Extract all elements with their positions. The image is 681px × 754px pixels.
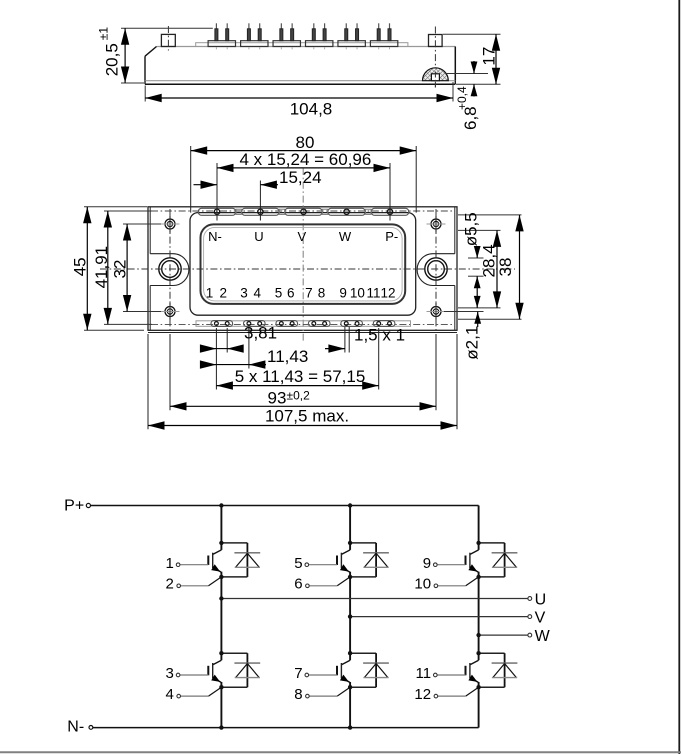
top view right flange step line	[454, 207, 456, 330]
side view left mounting boss	[161, 34, 175, 46]
N- rail	[93, 727, 479, 729]
side view pin socket 4	[306, 41, 333, 47]
aux emitter lead pin 12	[414, 686, 478, 703]
terminal row centerline	[151, 210, 454, 212]
svg-text:V: V	[297, 229, 306, 244]
svg-text:±0,2: ±0,2	[287, 388, 311, 402]
side view pin 1	[215, 23, 218, 49]
node U junction dot	[219, 596, 223, 600]
inter-slot tab	[279, 209, 284, 214]
svg-text:3: 3	[240, 285, 248, 300]
pin slot pair 6	[373, 321, 395, 327]
lid outer outline	[190, 213, 416, 316]
small mounting hole at (170,224)	[161, 216, 180, 233]
svg-text:U: U	[535, 592, 547, 609]
node W junction dot	[476, 633, 480, 637]
bushing square hole	[431, 74, 439, 81]
svg-text:3: 3	[166, 665, 174, 682]
side view pin 10	[356, 23, 359, 49]
emitter node of T1	[219, 575, 223, 579]
top view pin 8 circle	[323, 322, 327, 326]
terminal labels N- U V W P-	[208, 229, 398, 244]
svg-text:9: 9	[423, 555, 431, 572]
IGBT T3	[466, 543, 479, 577]
freewheel diode of T4	[221, 653, 260, 687]
side view pin socket 2	[241, 41, 268, 47]
vertical module centerline	[302, 168, 304, 342]
pin slot pair 4	[308, 321, 330, 327]
lid inner shadow line	[204, 227, 403, 301]
svg-text:U: U	[254, 229, 263, 244]
inter-slot tab	[366, 209, 371, 214]
IGBT T5	[337, 653, 350, 687]
pin slot pair 2	[244, 321, 266, 327]
emitter node of T2	[348, 575, 352, 579]
inter-slot tab	[322, 209, 327, 214]
top view pin 6 circle	[290, 322, 294, 326]
aux emitter lead pin 6	[294, 576, 350, 593]
svg-text:6: 6	[294, 576, 302, 593]
gate lead pin 1	[166, 555, 209, 572]
dimension 32 hole span	[111, 224, 132, 312]
side view pin 8	[323, 23, 326, 49]
right extension lines	[444, 215, 522, 319]
collector node of T1	[219, 541, 223, 545]
svg-text:ø5,5: ø5,5	[462, 212, 481, 246]
IGBT T4	[208, 653, 221, 687]
side view pin socket 1	[208, 41, 235, 47]
terminal slot 5	[371, 208, 408, 215]
top view bottom double edge	[148, 332, 457, 334]
svg-text:11: 11	[366, 285, 380, 300]
P+ junction dot leg1	[219, 503, 223, 507]
terminal slot 1	[198, 208, 235, 215]
inter-slot tab	[236, 209, 241, 214]
svg-text:6: 6	[287, 285, 295, 300]
side view pin 5	[280, 23, 283, 49]
small mounting hole at (170,311.5)	[161, 303, 180, 320]
right big mounting hole	[425, 258, 447, 280]
bushing top extension line	[445, 73, 488, 75]
freewheel diode of T1	[221, 543, 260, 577]
output wire V	[350, 610, 545, 627]
svg-text:ø2,1: ø2,1	[463, 326, 482, 360]
dimension 80 lid width	[191, 133, 417, 155]
svg-text:38: 38	[496, 258, 515, 277]
dimension ø5,5 mounting hole leader	[462, 212, 481, 308]
top view pin 4 circle	[258, 322, 262, 326]
svg-text:P-: P-	[385, 229, 398, 244]
aux emitter lead pin 8	[294, 686, 350, 703]
P+ junction dot leg2	[348, 503, 352, 507]
svg-text:W: W	[535, 628, 551, 645]
svg-text:11: 11	[416, 665, 432, 682]
dimension 107,5 max overall width	[148, 406, 457, 429]
collector node of T6	[476, 651, 480, 655]
pin row strip	[196, 321, 411, 327]
svg-text:10: 10	[350, 285, 365, 300]
side view pin 9	[345, 23, 348, 49]
dimension 6,8 +0,4 bushing height	[455, 61, 480, 130]
small mounting hole at (436,311.5)	[427, 303, 446, 320]
svg-text:8: 8	[294, 686, 302, 703]
left mounting hole boss cutout	[150, 254, 189, 286]
IGBT T1	[208, 543, 221, 577]
top view left flange step line	[149, 207, 151, 330]
side view pin 6	[291, 23, 294, 49]
leg 2 vertical wire	[349, 506, 351, 728]
dimension 11,43 group pitch	[200, 347, 308, 369]
terminal screw 3	[301, 209, 306, 214]
freewheel diode of T2	[350, 543, 389, 577]
side view left boss centerline	[167, 26, 169, 51]
svg-text:9: 9	[339, 285, 347, 300]
side view pin socket 3	[273, 41, 300, 47]
side view pin 2	[226, 23, 229, 49]
terminal screw 5	[387, 209, 392, 214]
svg-text:15,24: 15,24	[279, 168, 322, 187]
svg-text:8: 8	[318, 285, 326, 300]
top view pin 9 circle	[344, 322, 348, 326]
node V junction dot	[348, 614, 352, 618]
IGBT T2	[337, 543, 350, 577]
svg-text:N-: N-	[67, 719, 84, 736]
N- junction dot leg2	[348, 725, 352, 729]
svg-text:N-: N-	[208, 229, 222, 244]
top view pin 5 circle	[279, 322, 283, 326]
terminal screw 4	[344, 209, 349, 214]
bushing centerline over square	[434, 72, 436, 88]
svg-text:12: 12	[414, 686, 431, 703]
dimension 41,91 row span	[92, 211, 112, 324]
side view pin 4	[258, 23, 261, 49]
output wire W	[479, 628, 551, 645]
emitter node of T4	[219, 685, 223, 689]
pin number labels 1-12	[206, 285, 396, 300]
svg-text:12: 12	[380, 285, 395, 300]
aux emitter lead pin 2	[166, 576, 222, 593]
svg-text:7: 7	[294, 665, 302, 682]
terminal slot 2	[242, 208, 279, 215]
svg-text:5: 5	[294, 555, 302, 572]
svg-text:3,81: 3,81	[244, 324, 277, 343]
svg-text:2: 2	[220, 285, 228, 300]
side view pin socket 6	[370, 41, 397, 47]
svg-text:+0,4: +0,4	[455, 86, 469, 110]
svg-text:4: 4	[166, 686, 174, 703]
IGBT T6	[466, 653, 479, 687]
top view pin 3 circle	[247, 322, 251, 326]
collector node of T3	[476, 541, 480, 545]
gate lead pin 11	[416, 665, 466, 682]
side view baseplate	[145, 81, 455, 85]
freewheel diode of T6	[479, 653, 518, 687]
side view pin socket strip	[196, 43, 408, 47]
side view pin socket 5	[338, 41, 365, 47]
svg-text:4 x 15,24 = 60,96: 4 x 15,24 = 60,96	[239, 150, 371, 169]
dimension 104,8 side width	[145, 82, 453, 119]
svg-text:7: 7	[305, 285, 313, 300]
side view right boss / bushing centerline	[434, 27, 436, 88]
terminal screw 2	[258, 209, 263, 214]
dimension 1,5 x 1 pin size	[325, 326, 405, 353]
dimension 45 module height	[71, 207, 92, 330]
side view pin 11	[377, 23, 380, 49]
svg-text:1: 1	[166, 555, 174, 572]
gate lead pin 5	[294, 555, 337, 572]
svg-text:5: 5	[275, 285, 283, 300]
small mounting hole at (436,224)	[427, 216, 446, 233]
extension lines below top view	[148, 327, 457, 429]
dimension ø2,1 pin hole leader	[463, 312, 482, 360]
svg-text:10: 10	[414, 576, 431, 593]
svg-text:11,43: 11,43	[267, 347, 308, 366]
P+ terminal circle	[86, 503, 90, 507]
freewheel diode of T3	[479, 543, 518, 577]
side view pin 3	[247, 23, 250, 49]
svg-text:P+: P+	[64, 497, 84, 514]
top view pin 2 circle	[225, 322, 229, 326]
emitter node of T6	[476, 685, 480, 689]
svg-text:4: 4	[253, 285, 261, 300]
svg-text:17: 17	[480, 47, 499, 66]
svg-text:32: 32	[111, 260, 130, 279]
pin slot pair 3	[276, 321, 298, 327]
output wire U	[221, 592, 546, 609]
terminal screw 1	[214, 209, 219, 214]
terminal slot 3	[285, 208, 322, 215]
side view pin 7	[312, 23, 315, 49]
top view pin 7 circle	[312, 322, 316, 326]
svg-text:104,8: 104,8	[290, 100, 333, 119]
emitter node of T3	[476, 575, 480, 579]
dimension 15,24	[194, 168, 322, 189]
top view pin 11 circle	[377, 322, 381, 326]
top view pin 10 circle	[355, 322, 359, 326]
svg-text:41,91: 41,91	[92, 246, 111, 289]
dimension 17 right side height	[443, 34, 501, 84]
N- junction dot leg1	[219, 725, 223, 729]
top view pin 12 circle	[388, 322, 392, 326]
vertical centerline left holes	[169, 209, 171, 331]
gate lead pin 3	[166, 665, 209, 682]
svg-text:107,5 max.: 107,5 max.	[265, 406, 349, 425]
dimension 20,5 +/-1 side height	[97, 27, 213, 83]
svg-text:5 x 11,43 = 57,15: 5 x 11,43 = 57,15	[235, 367, 366, 386]
P+ rail	[91, 505, 479, 507]
dimension 93 +/-0,2 hole span	[170, 388, 436, 410]
collector node of T5	[348, 651, 352, 655]
side view module body outline	[145, 47, 455, 81]
dimension 3,81 pin pitch	[200, 324, 277, 353]
left big mounting hole	[159, 258, 181, 280]
N- terminal circle	[89, 726, 93, 730]
pin row centerline	[151, 323, 454, 325]
horizontal main centerline	[100, 268, 515, 270]
svg-text:45: 45	[71, 257, 90, 276]
svg-text:1: 1	[206, 285, 214, 300]
svg-text:V: V	[535, 610, 546, 627]
top view pin 1 circle	[215, 322, 219, 326]
terminal slot 4	[328, 208, 365, 215]
emitter node of T5	[348, 685, 352, 689]
aux emitter lead pin 10	[414, 576, 478, 593]
dimension 5 x 11,43 = 57,15	[216, 367, 378, 390]
svg-text:2: 2	[166, 576, 174, 593]
svg-text:1,5 x 1: 1,5 x 1	[354, 326, 405, 345]
right mounting hole boss cutout	[417, 254, 455, 286]
top view module outer outline	[148, 207, 457, 330]
pin slot pair 1	[211, 321, 233, 327]
dimension 4 x 15,24 = 60,96	[217, 150, 390, 172]
lid inner outline	[201, 224, 406, 304]
leg 3 vertical wire	[478, 506, 480, 728]
leg 1 vertical wire	[220, 506, 222, 728]
svg-text:W: W	[339, 229, 352, 244]
side view right mounting boss	[429, 35, 443, 47]
dimension 28,4	[480, 230, 502, 308]
pin slot pair 5	[341, 321, 363, 327]
gate lead pin 7	[294, 665, 337, 682]
collector node of T4	[219, 651, 223, 655]
gate lead pin 9	[423, 555, 466, 572]
collector node of T2	[348, 541, 352, 545]
freewheel diode of T5	[350, 653, 389, 687]
vertical centerline right holes	[435, 209, 437, 331]
side view pin 12	[388, 23, 391, 49]
svg-text:±1: ±1	[97, 27, 111, 41]
extension lines above top view	[191, 146, 417, 221]
left extension lines 45 41,91 32	[84, 207, 161, 330]
svg-text:93: 93	[268, 388, 287, 407]
svg-text:20,5: 20,5	[103, 43, 122, 76]
aux emitter lead pin 4	[166, 686, 222, 703]
dimension 38	[496, 215, 524, 319]
